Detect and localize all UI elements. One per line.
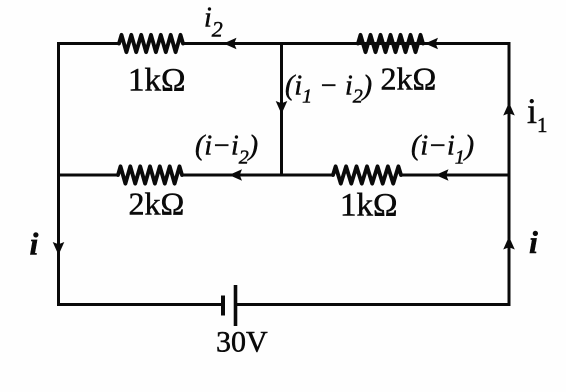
arrow: (i1-i2) current on middle vertical wire (points down): [276, 101, 288, 114]
svg-text:1kΩ: 1kΩ: [128, 63, 186, 99]
wire: left vertical branch: [57, 44, 60, 305]
wire: middle horizontal left stub: [59, 174, 119, 177]
wire: middle horizontal from R4 to right branch: [401, 174, 509, 177]
wire: bottom horizontal right of battery: [238, 303, 510, 306]
svg-text:2kΩ: 2kΩ: [129, 186, 185, 222]
arrow: current into node B on top-right wire (points left): [425, 38, 438, 50]
arrow: (i-i2) current on middle-left wire (points left): [229, 169, 242, 181]
svg-text:1kΩ: 1kΩ: [340, 188, 398, 224]
svg-text:i: i: [30, 226, 39, 262]
resistor R4 1kOhm (middle right): [333, 166, 401, 183]
arrow: i2 current on top-left wire (points left): [224, 38, 237, 50]
arrow: i1 current on right branch upper segment (points up): [503, 103, 515, 116]
wire: top horizontal from R1 to top-right corner: [183, 42, 509, 45]
resistor R1 1kOhm (top left): [119, 35, 183, 52]
arrow: (i-i1) current on middle-right wire (points left): [436, 169, 449, 181]
svg-text:i2: i2: [204, 3, 223, 42]
wire: middle horizontal between R3 and R4: [182, 174, 333, 177]
wire: bottom horizontal left of battery: [59, 303, 222, 306]
battery V1 30V negative plate (short): [221, 296, 225, 316]
svg-text:30V: 30V: [216, 326, 268, 359]
svg-text:(i−i2): (i−i2): [195, 131, 258, 169]
arrow: i current on left branch (points down): [53, 242, 65, 255]
svg-text:(i1 − i2): (i1 − i2): [285, 71, 372, 108]
wire: middle vertical branch (node B to node D): [280, 44, 283, 176]
battery V1 30V positive plate (long): [234, 285, 238, 326]
resistor R2 2kOhm (top right): [358, 35, 423, 52]
svg-text:2kΩ: 2kΩ: [381, 61, 437, 97]
svg-text:i: i: [529, 224, 538, 260]
wire: right vertical branch: [508, 44, 511, 305]
arrow: i current on right branch lower segment (points up): [503, 237, 515, 250]
svg-text:i1: i1: [527, 91, 548, 137]
resistor R3 2kOhm (middle left): [118, 166, 182, 183]
svg-text:(i−i1): (i−i1): [411, 131, 474, 169]
wire: top horizontal left stub: [59, 42, 120, 45]
